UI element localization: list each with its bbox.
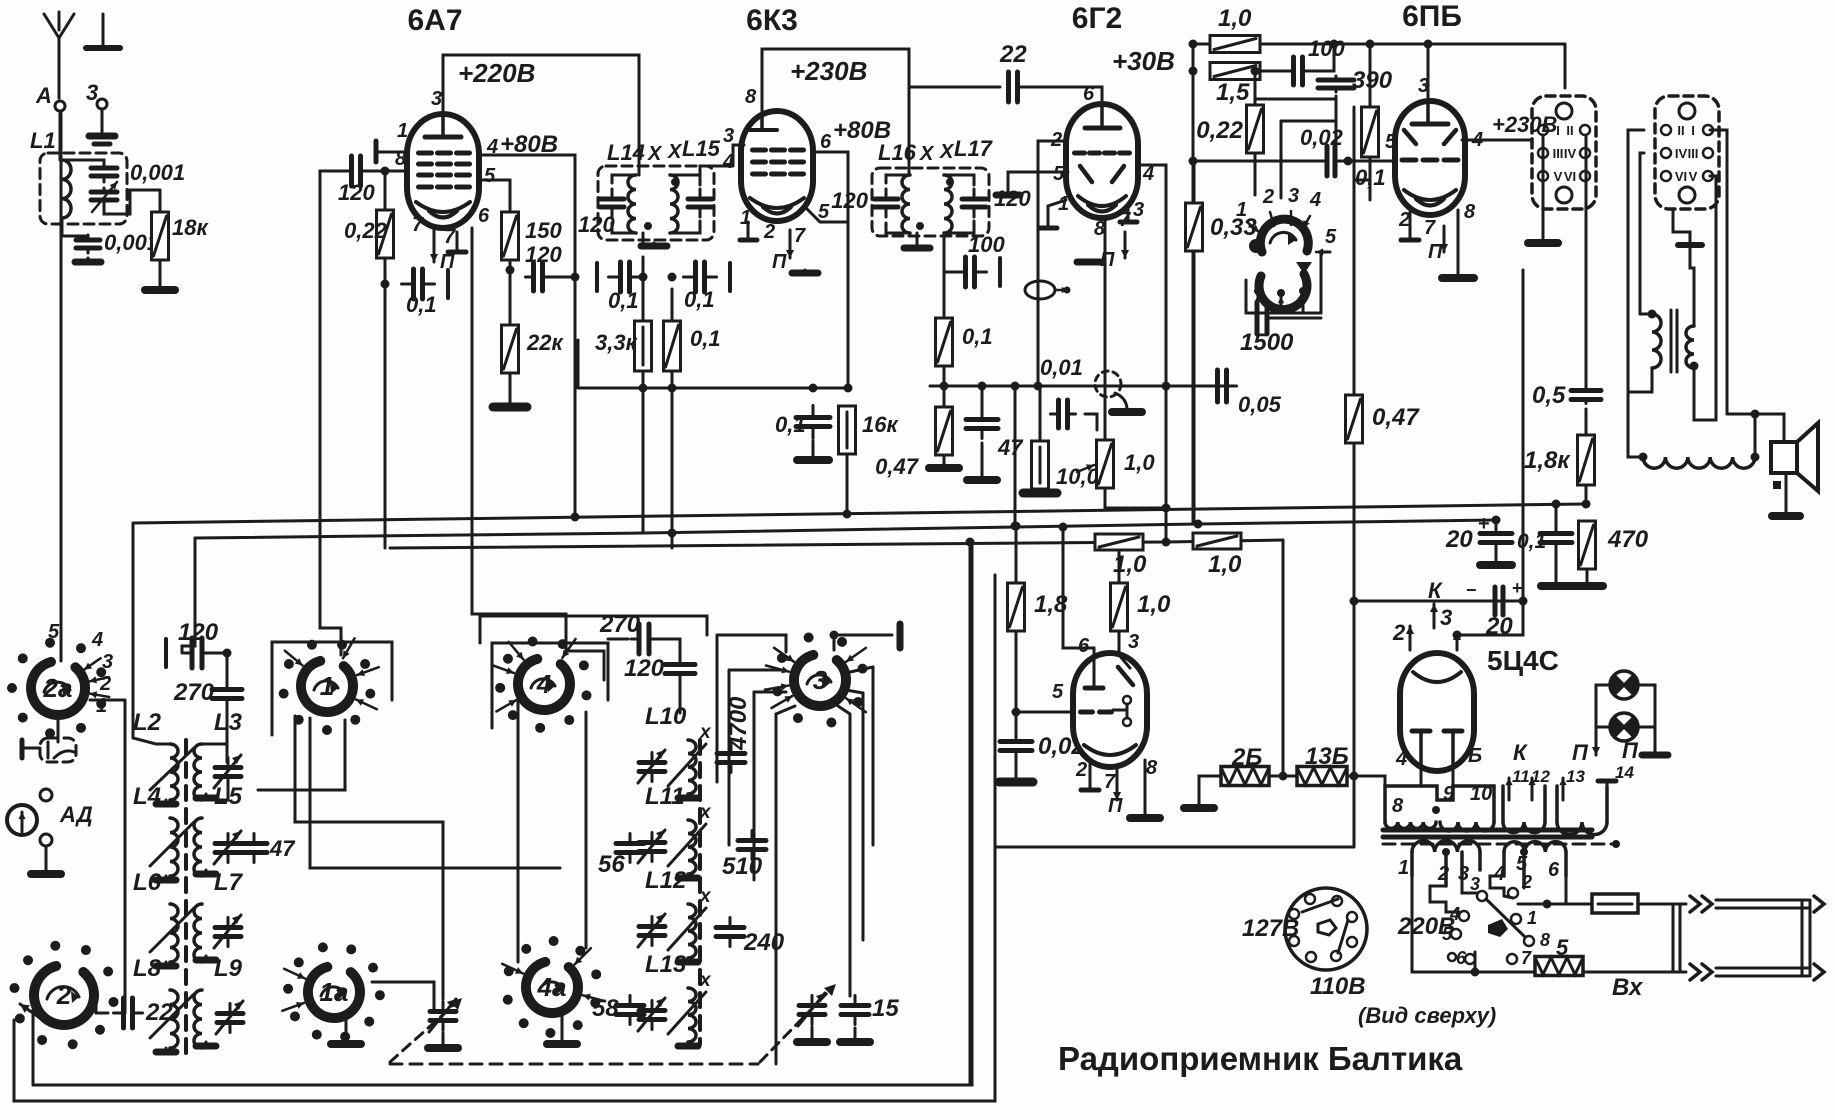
resistor 0,47 psu	[1346, 395, 1363, 443]
ground 15	[840, 1040, 870, 1042]
trimmer L5	[214, 831, 241, 864]
coil L14	[628, 175, 636, 233]
svg-text:5: 5	[1325, 226, 1337, 248]
capacitor 120 cathode	[526, 263, 551, 291]
wire 6ПБ pin2	[1409, 212, 1412, 240]
capacitor 0,02 triode	[1000, 734, 1032, 759]
tube 6ПБ grid	[1402, 158, 1416, 163]
svg-text:120: 120	[338, 180, 375, 205]
node busC end	[1492, 516, 1501, 525]
svg-text:0,1: 0,1	[1517, 530, 1546, 553]
svg-text:10: 10	[1470, 783, 1492, 805]
antenna	[44, 12, 74, 98]
svg-text:6ПБ: 6ПБ	[1402, 0, 1462, 33]
wire 1,0 top	[1104, 418, 1107, 440]
svg-text:240: 240	[743, 929, 785, 956]
ground 6Г2 heater	[1077, 259, 1103, 266]
wire pin4 80V	[479, 155, 575, 277]
svg-text:L1: L1	[30, 128, 56, 153]
svg-text:18к: 18к	[172, 215, 209, 240]
wire contact7 stub	[1474, 952, 1477, 972]
bar 20 el	[1480, 561, 1512, 569]
svg-text:1,0: 1,0	[1124, 450, 1155, 475]
transformer winding 8	[1385, 822, 1436, 828]
tube 6А7 anode	[425, 135, 461, 140]
tube 6А7 cathode	[416, 202, 470, 212]
wire staircase4	[1280, 121, 1283, 198]
svg-text:5: 5	[1053, 163, 1065, 185]
wire socket2 bottom step	[1673, 210, 1690, 245]
sw1 arrows	[285, 638, 379, 709]
wire L1 cap link	[62, 160, 104, 166]
wire bs left rail	[1245, 280, 1248, 313]
rotary switch 2а	[7, 638, 106, 739]
ground 0,02	[999, 780, 1033, 782]
svg-text:3: 3	[1418, 75, 1429, 97]
bar pin2 triode	[1081, 788, 1099, 793]
node busB 1166	[1162, 538, 1171, 547]
wire gridcap left to osc	[320, 171, 351, 655]
dashed gang arrow	[390, 1004, 455, 1062]
wire L16 gnd stem	[916, 233, 919, 245]
tube 6Г2 diode L	[1080, 166, 1092, 182]
wire 6К3 pin1 dn	[747, 222, 750, 240]
node 3,3к cap	[639, 273, 648, 282]
node 002 right	[1344, 157, 1353, 166]
wire sw4 down link2	[585, 712, 588, 948]
svg-text:1: 1	[320, 671, 334, 701]
tube 5Ц4С envelope	[1400, 653, 1474, 771]
svg-text:х: х	[699, 886, 712, 907]
bottom bus 2	[14, 575, 995, 1101]
svg-text:1,0: 1,0	[1208, 551, 1242, 578]
wire socket2 R2	[1700, 176, 1716, 420]
node sw3 rail	[830, 631, 839, 640]
wire socket1 pins down R	[1585, 135, 1588, 240]
wire gridcap to tube	[361, 170, 408, 173]
ground socket1	[1528, 240, 1558, 243]
coil L17	[944, 175, 952, 233]
svg-text:270: 270	[599, 611, 641, 638]
tube 6ПБ anode	[1412, 122, 1448, 127]
wire 0,1res top	[671, 289, 674, 321]
slash L12	[668, 908, 706, 950]
trimmer L7	[214, 915, 241, 948]
resistor 16к	[839, 406, 856, 454]
ground under 22к	[493, 405, 527, 407]
resistor 0,1 L15	[664, 321, 681, 371]
svg-text:L15: L15	[682, 136, 721, 161]
secondary 1-2-3 stems	[1410, 852, 1414, 876]
band switch upper blob	[1249, 239, 1263, 253]
svg-text:390: 390	[1352, 67, 1393, 94]
wire speaker gnd	[1785, 473, 1788, 514]
coil L5	[194, 818, 202, 876]
speaker field coil	[1643, 457, 1755, 468]
svg-text:6Г2: 6Г2	[1072, 2, 1122, 35]
svg-text:1: 1	[96, 695, 107, 717]
node 2Б13Б	[1279, 772, 1288, 781]
ground AD	[31, 872, 61, 874]
svg-text:2: 2	[1262, 186, 1274, 208]
svg-text:L9: L9	[214, 955, 243, 982]
wire 18k to ground	[159, 260, 162, 288]
wire 22 link	[96, 1012, 108, 1015]
svg-text:1,0: 1,0	[1137, 591, 1171, 618]
svg-text:+230В: +230В	[790, 56, 867, 86]
svg-text:7: 7	[1104, 771, 1116, 793]
cathode bar 6А7	[448, 250, 466, 255]
wire 6Г2 pin3	[1127, 206, 1130, 222]
cable rails	[1716, 899, 1808, 902]
svg-text:х: х	[699, 722, 712, 743]
wire 6ПБ grid in	[1395, 160, 1398, 163]
wire L16 top to b+	[908, 87, 911, 175]
pin1 bar	[374, 141, 379, 162]
wire staircase	[1255, 99, 1334, 105]
coil L10	[688, 740, 696, 794]
svg-text:+220В: +220В	[458, 58, 535, 88]
wire 6К3 pin3	[733, 145, 744, 166]
cap 0,1 L15 right bar	[728, 263, 732, 291]
wire pin1	[376, 151, 408, 154]
slash L11	[668, 824, 706, 866]
svg-text:3: 3	[1288, 185, 1299, 207]
triode diode plate	[1118, 667, 1133, 685]
node busC 1198	[1194, 520, 1203, 529]
svg-text:56: 56	[598, 851, 625, 878]
wire sw2 down	[32, 1010, 35, 1085]
wire trunk 1354	[1353, 107, 1356, 847]
capacitor 0,05	[1208, 370, 1237, 402]
ground L12	[678, 958, 698, 962]
wire 0,33 gap	[1193, 161, 1196, 203]
octal socket pins	[1305, 894, 1315, 904]
svg-text:П: П	[1572, 740, 1589, 765]
wire 1500 under	[1268, 317, 1321, 320]
wire cap to 1,0	[1085, 414, 1097, 430]
svg-text:V: V	[1554, 169, 1563, 184]
node 0,22r	[1251, 67, 1260, 76]
node 0,1res cap	[668, 273, 677, 282]
ground 10,0	[1023, 489, 1057, 493]
wire 2Б left	[1199, 776, 1221, 806]
selector contact 2	[1508, 888, 1518, 898]
wire 3,3к top	[642, 257, 645, 321]
ground L4	[156, 876, 176, 880]
wire L1 bottom	[62, 218, 88, 236]
wire sw3 left box	[716, 635, 719, 782]
wire socket1 R down	[1585, 240, 1588, 391]
resistor 3,3к	[635, 321, 652, 371]
tube 5Ц4С anode L	[1412, 729, 1430, 734]
dashed gang arrow 2	[760, 990, 830, 1062]
svg-text:IV: IV	[1564, 146, 1577, 161]
coil core dashed	[184, 740, 188, 1056]
selector blob	[1488, 919, 1508, 937]
svg-text:L12: L12	[645, 867, 687, 894]
selector contact 1	[1511, 914, 1521, 924]
svg-text:1,0: 1,0	[1113, 551, 1147, 578]
arrow 2 5Ц4С	[1409, 626, 1412, 650]
svg-text:Х: Х	[939, 141, 955, 163]
resistor 5 fuse	[1535, 957, 1583, 976]
wire 0,22r top	[1254, 71, 1257, 105]
node 1,0t	[1115, 538, 1124, 547]
wire sw3 feed3 down	[775, 714, 778, 1064]
svg-text:1500: 1500	[1240, 329, 1294, 356]
wire sec4 wiring	[1490, 876, 1513, 898]
cap 0,1 L14 left bar	[595, 263, 599, 291]
wire socket2 R1	[1710, 130, 1727, 414]
cable twist	[1672, 904, 1675, 972]
wire 2a pin5	[60, 648, 63, 661]
svg-text:9: 9	[1443, 783, 1455, 805]
coil L13	[688, 988, 696, 1042]
ground 6ПБ pin8	[1442, 276, 1474, 278]
svg-text:12: 12	[1531, 767, 1550, 786]
wire sec3 wiring	[1462, 876, 1477, 893]
wire sw4 top rail	[479, 616, 482, 643]
node 1166 y385	[1162, 382, 1171, 391]
node 6ПБ top	[1424, 40, 1433, 49]
svg-text:6: 6	[1078, 635, 1090, 657]
svg-text:2: 2	[1392, 620, 1406, 645]
wire 13Б right	[1347, 776, 1385, 790]
wire 15 gnd	[854, 1028, 857, 1040]
svg-text:13Б: 13Б	[1305, 743, 1349, 770]
ground 470	[1571, 584, 1603, 586]
wire gang2 gnd	[811, 1027, 814, 1040]
svg-text:14: 14	[1615, 763, 1634, 782]
svg-text:3: 3	[1133, 199, 1144, 221]
octal socket circle	[1285, 888, 1367, 970]
tube 6К3 envelope	[741, 111, 813, 221]
resistor 470	[1579, 521, 1596, 569]
capacitor 240	[716, 918, 744, 947]
capacitor 0,5	[1571, 387, 1601, 404]
svg-text:7: 7	[1424, 217, 1436, 239]
svg-text:Радиоприемник Балтика: Радиоприемник Балтика	[1058, 1040, 1463, 1077]
selector contact 4	[1459, 911, 1469, 921]
wiper arrow 1,0	[1077, 465, 1094, 472]
terminal 3	[97, 99, 107, 109]
ground 47	[967, 478, 997, 480]
svg-text:5: 5	[48, 621, 60, 643]
svg-text:58: 58	[592, 995, 619, 1022]
node 002 left	[1189, 157, 1198, 166]
svg-text:8: 8	[745, 86, 757, 108]
svg-text:L16: L16	[878, 140, 917, 165]
wire sec1 to 5	[1412, 971, 1535, 974]
svg-text:47: 47	[997, 435, 1024, 460]
svg-text:22: 22	[145, 999, 173, 1026]
node 388a	[639, 384, 648, 393]
svg-text:0,02: 0,02	[1300, 125, 1344, 150]
capacitor 100 right	[1288, 57, 1309, 85]
wire 1,0t top	[1118, 542, 1121, 583]
wire 2a cap22 link	[124, 700, 127, 1013]
terminal bar sw3	[897, 624, 904, 648]
coil L15	[670, 175, 678, 233]
svg-text:К: К	[1428, 578, 1443, 603]
cable arrows	[1814, 896, 1824, 980]
wire top right rail	[1193, 43, 1565, 46]
coil L11	[688, 820, 696, 874]
wire L14 bottom down	[642, 233, 645, 245]
node 388c	[809, 384, 818, 393]
fuse	[1592, 894, 1638, 913]
svg-text:(Вид сверху): (Вид сверху)	[1358, 1003, 1496, 1028]
svg-text:0,22: 0,22	[1196, 117, 1243, 144]
triode anode	[1085, 686, 1103, 691]
svg-text:3: 3	[1470, 874, 1480, 894]
svg-text:0,22: 0,22	[344, 218, 388, 243]
wire 22 to 6Г2	[1018, 87, 1102, 106]
capacitor 15	[841, 996, 869, 1025]
capacitor 510	[738, 831, 766, 860]
node busC 1015	[1011, 522, 1020, 531]
node 7 bottom	[1471, 968, 1480, 977]
svg-text:5: 5	[1052, 681, 1064, 703]
wire staircase2	[1254, 153, 1257, 195]
svg-text:L13: L13	[645, 951, 687, 978]
phone jack dashed circle	[1095, 371, 1121, 397]
resistor 18к	[152, 212, 169, 260]
svg-text:2: 2	[1075, 759, 1087, 781]
svg-text:L7: L7	[214, 869, 244, 896]
svg-text:П: П	[1622, 738, 1639, 763]
svg-text:2Б: 2Б	[1231, 744, 1262, 771]
wire contact2 to fuse	[1518, 903, 1592, 906]
resistor 1,0 vol	[1097, 440, 1114, 488]
svg-text:2: 2	[763, 221, 775, 243]
arrow 3 5Ц4С	[1456, 632, 1459, 650]
node 0,1 0,47	[940, 382, 949, 391]
wire 1,8 top	[1015, 526, 1018, 583]
node 1,8 top	[1012, 522, 1021, 531]
tube 6ПБ envelope	[1395, 101, 1465, 215]
svg-text:Б: Б	[1468, 745, 1482, 767]
rotary switch 4а	[503, 936, 601, 1038]
band switch upper arc	[1260, 219, 1308, 252]
svg-text:0,1: 0,1	[406, 292, 437, 317]
wire top rail to socket1	[1564, 44, 1567, 88]
svg-text:Х: Х	[667, 141, 683, 163]
capacitor 22 L8	[114, 998, 143, 1028]
wire 0,1g top	[1369, 44, 1372, 107]
selector blade	[1486, 899, 1524, 936]
wire sec5 wiring	[1523, 886, 1526, 888]
node 1193 71	[1189, 67, 1198, 76]
arrow П lamp	[1595, 727, 1598, 755]
wire box left	[22, 747, 40, 750]
trimmer L3	[214, 755, 241, 788]
wire hv line	[1522, 270, 1525, 601]
wire 6Г2 pin4	[1138, 165, 1166, 385]
coil core dashed 2	[698, 740, 702, 1044]
svg-text:L2: L2	[133, 709, 162, 736]
wire terminal3 down	[101, 109, 104, 132]
trimmer gang 2	[798, 993, 825, 1026]
svg-text:4: 4	[91, 629, 103, 651]
svg-text:VI: VI	[1675, 169, 1687, 184]
ground 2Б	[1184, 806, 1214, 808]
wire 120sw4 down	[679, 683, 682, 713]
wire y388 left up	[577, 340, 580, 388]
tube 6К3 grids	[753, 148, 766, 153]
wire sw3 feed3	[776, 706, 795, 714]
ground L9	[196, 1042, 216, 1046]
ground L16	[904, 245, 930, 248]
svg-text:16к: 16к	[862, 412, 899, 437]
wire L17 bot	[944, 221, 974, 233]
wire socket1 pins down L	[1542, 135, 1545, 240]
wire ot primary top	[1640, 313, 1652, 316]
node field L	[1639, 453, 1648, 462]
node busC 672	[668, 529, 677, 538]
svg-text:13: 13	[1566, 767, 1585, 786]
capacitor 120 grid 6А7	[352, 156, 361, 186]
wire 20 top	[1495, 520, 1498, 528]
resistor 1,8к	[1578, 435, 1595, 485]
wire L14 primary top from 220V	[638, 170, 641, 175]
wire sw1 bundle3	[258, 720, 345, 790]
svg-text:L8: L8	[133, 955, 162, 982]
wire 6ПБ pin4	[1462, 139, 1532, 142]
sw4a arrows	[502, 948, 605, 1001]
svg-text:0,1: 0,1	[608, 288, 639, 313]
capacitor 47	[966, 410, 998, 439]
sw1a arrows	[282, 969, 305, 1011]
L1 coil box	[40, 153, 127, 224]
wire 0,02 gnd	[1015, 755, 1018, 780]
wire 270sw4 right	[654, 639, 680, 655]
terminal AD1	[40, 789, 52, 801]
node L16 bottom	[916, 222, 924, 230]
ground under 18к	[145, 288, 175, 290]
svg-text:1а: 1а	[320, 977, 349, 1007]
ground sw4a	[547, 1040, 577, 1044]
output transformer core	[1670, 310, 1673, 372]
svg-text:L11: L11	[645, 783, 685, 810]
contact in box	[47, 742, 50, 758]
ground L11	[678, 874, 698, 878]
svg-text:+: +	[1512, 578, 1523, 598]
node 1334 44	[1330, 40, 1339, 49]
wire sw3 right1	[850, 667, 873, 672]
svg-text:6: 6	[1083, 83, 1095, 105]
resistor 0,33	[1186, 203, 1203, 251]
node winding9	[1432, 806, 1440, 814]
wire 18k top	[159, 190, 162, 212]
wire 0,02 left	[1193, 160, 1322, 163]
wire 150 to 22к	[509, 260, 512, 325]
terminal AD2	[40, 834, 52, 846]
wire L17 top	[944, 175, 974, 185]
coil L9	[194, 990, 202, 1048]
svg-text:3: 3	[1458, 863, 1469, 885]
svg-text:5: 5	[484, 165, 496, 187]
node s5	[1520, 848, 1528, 856]
ground 0,47	[929, 466, 959, 468]
slash L6	[150, 908, 194, 952]
svg-text:А: А	[35, 83, 52, 108]
wire AD down	[45, 846, 48, 872]
rotary switch 4	[495, 636, 591, 732]
node L17 top	[946, 178, 954, 186]
wire L15 bot	[670, 221, 700, 233]
